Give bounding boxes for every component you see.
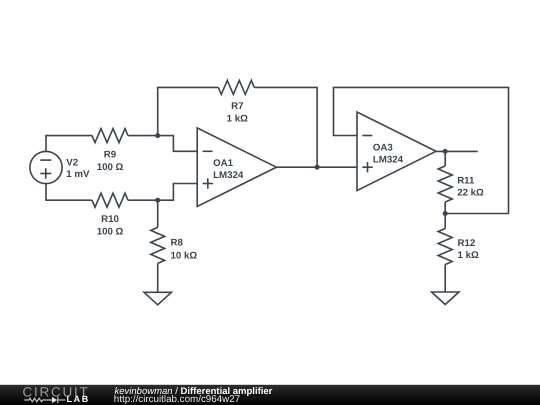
wire V2 top to R9 [46,136,92,152]
svg-text:R9: R9 [104,149,117,160]
footer bar [0,385,540,405]
svg-text:100 Ω: 100 Ω [97,226,124,237]
wire R7 to output [254,87,317,167]
resistor R7 [218,80,254,94]
resistor R11 [438,166,452,202]
wire output to R11 [444,151,446,166]
ground (R8) [144,292,171,305]
wire OA3 minus feedback loop [334,87,509,213]
node R10/R8/OA1+ junction [155,198,160,203]
svg-text:R10: R10 [101,214,119,225]
svg-text:http://circuitlab.com/c964w27: http://circuitlab.com/c964w27 [114,394,240,405]
node R11/R12 junction [443,211,448,216]
label OA3 part [373,142,404,165]
svg-text:1 mV: 1 mV [66,169,90,180]
node R7/output junction [315,165,320,170]
node R9/R7/OA1- junction [155,133,160,138]
svg-text:R12: R12 [458,238,476,249]
label R9 value [97,149,124,172]
svg-text:R8: R8 [171,238,184,249]
CircuitLab logo resistor-diode glyph [24,397,65,403]
resistor R8 [151,227,165,263]
node OA3 output/R11 junction [443,149,448,154]
wire R11 to node [444,202,446,214]
wire R9 to OA1 minus input [128,136,197,152]
wire OA3 output [436,150,478,152]
resistor R10 [92,193,128,207]
op-amp OA1 [197,128,276,207]
svg-text:22 kΩ: 22 kΩ [457,187,484,198]
svg-text:10 kΩ: 10 kΩ [171,250,198,261]
wire R8 to ground [157,263,159,292]
CircuitLab logo wordmark [23,385,90,405]
wire node to R8 [157,200,159,227]
svg-text:1 kΩ: 1 kΩ [227,114,248,125]
wire V2 bottom to R10 [46,184,92,201]
wire R12 to ground [444,265,446,293]
wire R10 to OA1 plus input [128,184,197,201]
wire OA1 output to OA3 plus input [276,166,357,168]
voltage source V2 [30,151,62,183]
svg-text:R7: R7 [231,101,243,112]
wire node to R7 loop [158,87,219,135]
label R12 value [458,238,479,261]
label OA1 part [213,158,244,181]
footer title text [114,386,273,405]
ground (R12) [432,292,459,305]
svg-text:OA1: OA1 [213,158,234,169]
svg-text:LM324: LM324 [213,170,244,181]
resistor R9 [92,129,128,143]
label R7 value [227,101,248,124]
label R8 value [171,238,198,262]
svg-text:R11: R11 [457,176,475,187]
label R10 value [97,214,124,237]
label V2 value [66,158,90,181]
svg-text:V2: V2 [66,158,78,169]
wire node to R12 [444,214,446,229]
op-amp OA3 [357,112,436,191]
resistor R12 [438,229,452,265]
label R11 value [457,176,484,199]
svg-text:100 Ω: 100 Ω [97,162,124,173]
svg-text:OA3: OA3 [373,142,394,153]
svg-text:LM324: LM324 [373,155,404,166]
svg-text:LAB: LAB [67,394,90,404]
svg-text:1 kΩ: 1 kΩ [458,250,479,261]
